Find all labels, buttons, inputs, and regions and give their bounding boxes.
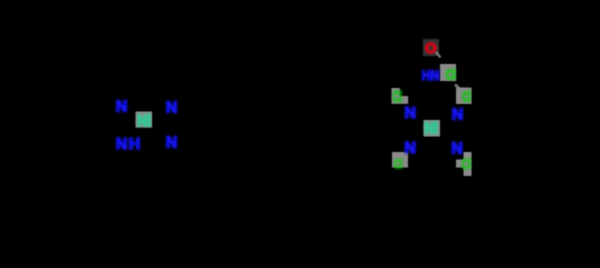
Cl bottom-left highlight box	[392, 152, 408, 168]
bond stub to Cl upper-right	[455, 85, 462, 91]
svg-text:Cl: Cl	[462, 156, 472, 173]
carbonyl O: dark box	[423, 39, 439, 56]
svg-text:N: N	[116, 99, 128, 116]
metal Ni right: highlight box	[424, 120, 441, 137]
Cl bottom-right highlight boxes	[464, 152, 472, 176]
svg-text:O: O	[425, 40, 437, 57]
svg-text:Ni: Ni	[424, 121, 438, 138]
svg-text:N: N	[116, 136, 128, 153]
svg-text:Cl: Cl	[462, 88, 470, 105]
metal Ni left: highlight box	[136, 112, 153, 128]
svg-text:N: N	[166, 135, 178, 152]
bond C=O stub	[436, 52, 441, 58]
Cl upper-right highlight box	[456, 88, 472, 105]
Cl upper-left highlight boxes	[392, 88, 400, 96]
svg-text:Ni: Ni	[137, 113, 151, 130]
Cl top: highlight box	[440, 64, 456, 81]
svg-text:N: N	[451, 141, 463, 158]
svg-text:H: H	[129, 136, 141, 153]
svg-text:HN: HN	[422, 67, 440, 83]
svg-text:N: N	[166, 100, 178, 117]
svg-text:Cl: Cl	[393, 89, 403, 106]
svg-text:Cl: Cl	[394, 156, 403, 172]
svg-text:N: N	[404, 140, 416, 157]
svg-text:Cl: Cl	[446, 67, 456, 84]
svg-text:N: N	[452, 107, 464, 124]
svg-text:N: N	[405, 105, 417, 122]
